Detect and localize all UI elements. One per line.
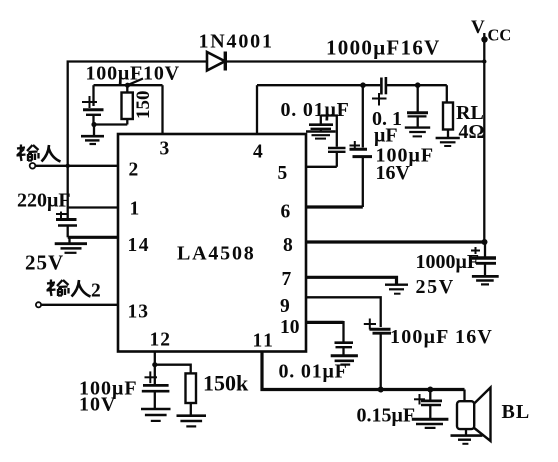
- node: junction 0.15uF / rail: [427, 387, 433, 393]
- capacitor 0.01uF (pin10): [335, 343, 354, 355]
- node: crossing at left rail: [66, 164, 70, 168]
- diode D 1N4001: [207, 52, 225, 71]
- svg-text:10: 10: [280, 317, 300, 338]
- capacitor 1000uF25V: [471, 242, 496, 275]
- ground (150k): [177, 416, 207, 427]
- input terminal 2: [36, 302, 41, 307]
- wire: pin 5 stub: [306, 166, 337, 168]
- svg-text:0. 01μF: 0. 01μF: [281, 99, 350, 121]
- svg-text:14: 14: [128, 235, 151, 256]
- svg-text:11: 11: [253, 331, 275, 352]
- svg-text:1: 1: [130, 199, 140, 220]
- svg-text:1000μF: 1000μF: [416, 251, 480, 273]
- ground (RL): [436, 138, 460, 146]
- svg-text:5: 5: [278, 163, 288, 184]
- resistor RL 4ohm: [443, 85, 453, 137]
- wire: diagonal tick at junction: [128, 79, 144, 86]
- svg-text:0.15μF: 0.15μF: [357, 405, 416, 427]
- wire: pin 6 stub (bold): [306, 205, 363, 208]
- svg-text:3: 3: [160, 139, 170, 160]
- wire: input 2 to pin 13: [41, 304, 118, 306]
- svg-text:0. 01μF: 0. 01μF: [279, 361, 348, 383]
- capacitor 100uF16V (output, pin9): [364, 319, 391, 390]
- node: junction 0.1uF: [415, 82, 421, 88]
- wire: VCC vertical rail down right side to pin 8: [483, 62, 485, 243]
- ground (0.15uF): [412, 419, 449, 428]
- wire: pin 10 stub (bold): [306, 321, 344, 324]
- label input2 (CJK shu-ru 2): [47, 280, 91, 297]
- ground (0.01uF top): [306, 129, 336, 139]
- capacitor 1000uF16V (series output): [372, 77, 387, 106]
- capacitor (pin5 series): [328, 148, 346, 167]
- svg-text:8: 8: [283, 235, 293, 256]
- VCC supply symbol: [471, 17, 511, 62]
- wire: output rail left of series cap: [257, 84, 380, 86]
- svg-text:1N4001: 1N4001: [199, 31, 274, 53]
- wire: pin 8 to VCC rail (bold): [306, 240, 484, 243]
- ground (speaker): [451, 436, 483, 444]
- node: junction at cap bottom: [91, 122, 96, 127]
- capacitor 220uF 25V: [56, 212, 77, 238]
- svg-text:CC: CC: [488, 26, 512, 45]
- wire: input 1 to pin 2: [35, 165, 118, 167]
- svg-text:150k: 150k: [203, 371, 249, 396]
- svg-text:25V: 25V: [416, 276, 455, 298]
- wire: top VCC rail right segment (diode cathode to VCC corner): [227, 60, 485, 62]
- svg-text:V: V: [471, 17, 485, 38]
- svg-text:9: 9: [280, 296, 290, 317]
- resistor 150 ohm: [122, 85, 155, 124]
- svg-text:7: 7: [282, 269, 292, 290]
- svg-text:12: 12: [150, 330, 172, 351]
- wire: pin12 to 150k: [155, 365, 191, 374]
- capacitor 0.15uF: [414, 390, 442, 419]
- svg-text:6: 6: [281, 202, 291, 223]
- ground (1000uF25V): [472, 276, 499, 284]
- wire: pin 3 connection: [161, 85, 163, 134]
- ground (pin3 filter cap): [81, 125, 104, 145]
- svg-text:4Ω: 4Ω: [459, 121, 485, 143]
- node: junction 100uF bootstrap: [360, 82, 366, 88]
- svg-text:4: 4: [253, 142, 263, 163]
- svg-text:25V: 25V: [25, 251, 64, 275]
- wire: pin 12 drop: [154, 352, 156, 365]
- svg-text:16V: 16V: [376, 162, 411, 184]
- svg-text:2: 2: [129, 160, 139, 181]
- node: junction pin8/VCC: [482, 239, 488, 245]
- capacitor 100uF10V (pin3 filter): [82, 85, 104, 124]
- wire: 0.01uF link to pin5 cap: [321, 116, 337, 147]
- ground (100uF10V pin12): [141, 409, 171, 421]
- svg-text:10V: 10V: [79, 394, 116, 416]
- capacitor 100uF16V (bootstrap pin6): [350, 85, 373, 207]
- svg-text:2: 2: [91, 281, 101, 302]
- svg-text:13: 13: [128, 302, 150, 323]
- ground (220uF / pin14): [55, 237, 87, 253]
- svg-text:BL: BL: [502, 401, 531, 423]
- node: junction at 150ohm top: [125, 83, 130, 88]
- node: junction output cap / rail: [378, 387, 384, 393]
- wire: pin 7 stub (bold): [306, 277, 397, 284]
- speaker BL: [457, 388, 491, 442]
- wire: top VCC rail left segment (corner to diode anode): [68, 62, 207, 219]
- capacitor 0.1uF: [407, 85, 428, 127]
- wire: output rail right of series cap: [387, 84, 447, 86]
- svg-text:100μF 16V: 100μF 16V: [390, 326, 493, 348]
- wire: pin 11 drop and bottom rail (bold): [262, 352, 465, 390]
- wire: pin3 filter top rail: [94, 84, 163, 86]
- wire: pin 14 stub (bold): [68, 236, 118, 239]
- wire: pin 4 riser: [256, 85, 258, 134]
- svg-text:100μF10V: 100μF10V: [86, 63, 180, 85]
- wire: pin10 cap riser: [342, 321, 344, 342]
- svg-text:LA4508: LA4508: [177, 243, 256, 265]
- wire: resistor bottom to cap bottom: [94, 123, 127, 125]
- input terminal 1: [30, 163, 36, 169]
- ground (pin7): [385, 285, 408, 294]
- svg-text:150: 150: [133, 91, 154, 120]
- op-amp IC U1 LA4508 box: [118, 134, 306, 352]
- label input1 (CJK shu-ru): [17, 145, 61, 162]
- node: junction pin12: [152, 362, 157, 367]
- svg-text:1000μF16V: 1000μF16V: [326, 36, 441, 60]
- resistor 150k: [186, 373, 197, 415]
- wire: pin 1 stub: [68, 206, 118, 208]
- ground (0.1uF): [405, 128, 430, 137]
- wire: pin 9 to output cap: [306, 297, 381, 327]
- ground (0.01uF pin10): [331, 356, 358, 365]
- svg-text:μF: μF: [374, 125, 398, 147]
- svg-text:220μF: 220μF: [17, 190, 71, 212]
- capacitor 0.01uF (pin5): [309, 116, 333, 129]
- capacitor 100uF10V (pin12): [142, 365, 170, 408]
